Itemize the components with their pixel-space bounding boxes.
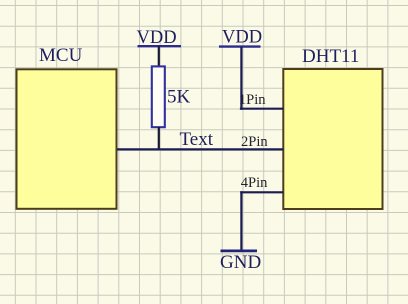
svg-text:VDD: VDD [222, 28, 262, 48]
net label Text [180, 129, 214, 150]
svg-text:2Pin: 2Pin [241, 134, 268, 150]
svg-text:GND: GND [220, 252, 261, 273]
pin 4 of DHT11 [240, 175, 283, 193]
ground GND [220, 251, 261, 273]
wire net Text: MCU to DHT11 pin 2 [117, 148, 283, 150]
svg-text:MCU: MCU [39, 45, 83, 66]
svg-text:1Pin: 1Pin [239, 92, 266, 108]
svg-text:5K: 5K [167, 87, 191, 108]
resistor R1 body [152, 66, 165, 127]
power port VDD left [137, 28, 182, 48]
pin 2 of DHT11 label [241, 134, 268, 150]
component U1 MCU body [17, 69, 117, 209]
svg-text:Text: Text [180, 129, 214, 150]
svg-text:DHT11: DHT11 [302, 46, 359, 67]
value label 5K [167, 87, 191, 108]
wire pin 4 to GND [240, 191, 242, 252]
pin 1 of DHT11 [239, 92, 283, 109]
svg-text:4Pin: 4Pin [241, 175, 268, 191]
component U2 DHT11 body [283, 69, 382, 209]
label DHT11 [302, 46, 359, 67]
label MCU [39, 45, 83, 66]
wire resistor R1 to net Text [158, 127, 160, 150]
power port VDD right [219, 28, 262, 48]
wire VDD right to pin 1 [240, 47, 242, 110]
wire VDD to resistor R1 [158, 46, 160, 67]
